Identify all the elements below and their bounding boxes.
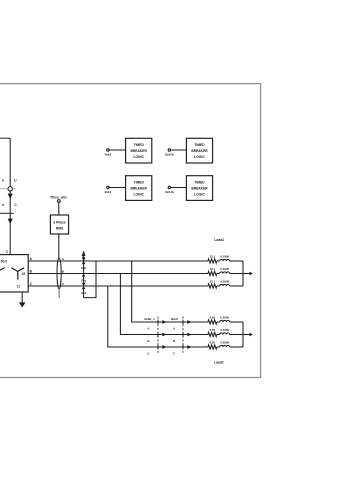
arrowheads at phase C crossing [82, 283, 86, 289]
svg-text:C: C [173, 352, 176, 356]
svg-text:#2: #2 [22, 272, 26, 276]
breaker BRK1 gang line (dashed) [157, 317, 159, 354]
BRK1 ticks [157, 320, 159, 349]
timed breaker logic box U3 [126, 176, 152, 201]
svg-text:A: A [62, 257, 65, 261]
svg-text:BREAKER: BREAKER [191, 186, 208, 190]
breaker BRK1 arrow phase C [162, 345, 166, 349]
wire terminal to U4 [170, 187, 186, 189]
svg-text:C: C [62, 282, 65, 286]
voltmeter column wire [83, 252, 85, 298]
three-phase breakout ellipse [57, 258, 61, 288]
ammeter node circle [8, 187, 12, 191]
Load2 output wire [243, 334, 250, 336]
wire R3-L3 [217, 285, 220, 287]
svg-text:BREAKER: BREAKER [131, 186, 148, 190]
wire L3 to connector [230, 285, 243, 287]
wire RMS box to bus [58, 234, 60, 259]
transformer T1 box [0, 255, 28, 292]
wire source to ammeter [9, 138, 11, 186]
wire terminal to U3 [109, 187, 126, 189]
svg-text:0.0009: 0.0009 [220, 328, 229, 332]
breakout tail wire [58, 289, 60, 299]
bus wire phase A [28, 260, 208, 262]
svg-text:0.1906: 0.1906 [220, 279, 229, 283]
source box (cut off at left edge) [0, 137, 10, 139]
resistor R2 [208, 271, 217, 275]
svg-text:Eab: Eab [81, 266, 86, 270]
svg-text:Brk2: Brk2 [105, 153, 112, 157]
wire transformer to ground [21, 292, 23, 303]
wire L2 to connector [230, 273, 243, 275]
Load2 connector wire [242, 322, 244, 347]
svg-text:0.0009: 0.0009 [220, 340, 229, 344]
timed breaker logic box U4 [186, 176, 212, 201]
voltmeter return loop wire [84, 261, 96, 298]
wire R6-L6 [217, 346, 220, 348]
wire branch left [0, 212, 14, 214]
BRK2 ticks [182, 320, 184, 349]
resistor R4 [208, 320, 217, 324]
breaker BRK2 arrow phase C [187, 345, 191, 349]
flow arrow down 1 [8, 194, 13, 199]
Load2 output arrow [249, 333, 252, 337]
svg-text:LOGIC: LOGIC [194, 192, 205, 196]
svg-text:TIMED: TIMED [134, 143, 145, 147]
timed breaker logic box U2 [186, 138, 212, 163]
svg-text:3 Phase: 3 Phase [53, 221, 66, 225]
svg-text:Three_wire: Three_wire [50, 195, 67, 199]
svg-text:BREAKER: BREAKER [131, 149, 148, 153]
terminal Brk1 [107, 186, 109, 188]
breaker BRK2 arrow phase A [187, 320, 191, 324]
svg-text:Brk2b: Brk2b [165, 153, 174, 157]
arrowheads at phase A crossing [82, 258, 86, 264]
svg-text:Brk1b: Brk1b [165, 190, 174, 194]
svg-text:C: C [30, 282, 33, 286]
svg-text:a: a [2, 178, 4, 182]
drop wire phase B [120, 274, 207, 335]
wire R2-L2 [217, 273, 220, 275]
wire node to RMS box [58, 202, 60, 215]
timed breaker logic box U1 [126, 138, 152, 163]
svg-text:RMS: RMS [56, 227, 64, 231]
Load1 connector wire [242, 261, 244, 286]
resistor R3 [208, 284, 217, 288]
Load1 output wire [243, 273, 250, 275]
schematic frame border [0, 84, 261, 378]
svg-text:BREAKER: BREAKER [191, 149, 208, 153]
svg-text:11: 11 [17, 285, 21, 289]
bus wire phase C [28, 285, 208, 287]
inductor L2 [220, 272, 230, 274]
svg-text:Brk1: Brk1 [105, 190, 112, 194]
svg-text:Ebc: Ebc [81, 278, 87, 282]
inductor L1 [220, 259, 230, 261]
transformer winding #2 wye [11, 268, 24, 280]
svg-text:A: A [147, 327, 150, 331]
drop wire phase C [108, 286, 208, 347]
resistor R6 [208, 345, 217, 349]
wire R1-L1 [217, 260, 220, 262]
svg-text:C: C [14, 203, 17, 207]
svg-text:C: C [6, 250, 9, 254]
drop wire phase A [132, 261, 208, 322]
arrowhead at phase B crossing [82, 274, 86, 277]
wire R5-L5 [217, 334, 220, 336]
wire terminal to U2 [170, 149, 186, 151]
terminal Brk1b [168, 186, 170, 188]
svg-text:Brk2: Brk2 [171, 317, 178, 321]
3 Phase RMS box [50, 215, 68, 234]
svg-text:LOGIC: LOGIC [194, 155, 205, 159]
breaker BRK2 gang line (dashed) [182, 317, 184, 354]
svg-text:B: B [173, 339, 176, 343]
breaker BRK1 arrow phase B [162, 333, 166, 337]
inductor L3 [220, 284, 230, 286]
resistor R1 [208, 259, 217, 263]
inductor L5 [220, 333, 230, 335]
svg-text:TIMED: TIMED [194, 143, 205, 147]
wire L5 to connector [230, 334, 243, 336]
svg-text:A: A [30, 257, 33, 261]
breaker BRK2 arrow phase B [187, 333, 191, 337]
svg-text:B: B [30, 270, 33, 274]
svg-text:a: a [2, 203, 4, 207]
wire L4 to connector [230, 321, 243, 323]
wire ammeter to arrow [9, 191, 11, 213]
svg-text:Brkb_1: Brkb_1 [145, 317, 156, 321]
ammeter stub left [0, 188, 8, 190]
svg-text:U: U [14, 178, 17, 182]
bus wire phase B [28, 273, 208, 275]
svg-text:00.0: 00.0 [1, 260, 8, 264]
ammeter stub right [13, 188, 16, 190]
svg-text:TIMED: TIMED [134, 180, 145, 184]
voltmeter top arrow [82, 251, 86, 256]
Load1 output arrow [249, 272, 252, 276]
wire R4-L4 [217, 321, 220, 323]
svg-text:C: C [147, 352, 150, 356]
ground arrow [19, 302, 26, 307]
svg-text:B: B [62, 270, 65, 274]
wire L1 to connector [230, 260, 243, 262]
wire to transformer [9, 213, 11, 254]
svg-text:Load1: Load1 [214, 238, 224, 242]
svg-text:TIMED: TIMED [194, 180, 205, 184]
svg-text:0.0009: 0.0009 [220, 315, 229, 319]
svg-text:0.1906: 0.1906 [220, 267, 229, 271]
transformer winding #1 arm (cut) [0, 268, 5, 271]
svg-text:B: B [147, 339, 150, 343]
inductor L4 [220, 320, 230, 322]
wire terminal to U1 [109, 149, 126, 151]
svg-text:LOGIC: LOGIC [133, 155, 144, 159]
breaker BRK1 arrow phase A [162, 320, 166, 324]
terminal Brk2 [107, 149, 109, 151]
node Three_wire circle [57, 200, 60, 203]
wire L6 to connector [230, 346, 243, 348]
svg-text:0.1906: 0.1906 [220, 254, 229, 258]
svg-text:A: A [173, 327, 176, 331]
svg-text:LOGIC: LOGIC [133, 192, 144, 196]
resistor R5 [208, 332, 217, 336]
flow arrow down 2 [8, 219, 13, 224]
svg-text:Eca: Eca [81, 291, 86, 295]
inductor L6 [220, 345, 230, 347]
svg-text:Load2: Load2 [214, 360, 224, 364]
terminal Brk2b [168, 149, 170, 151]
